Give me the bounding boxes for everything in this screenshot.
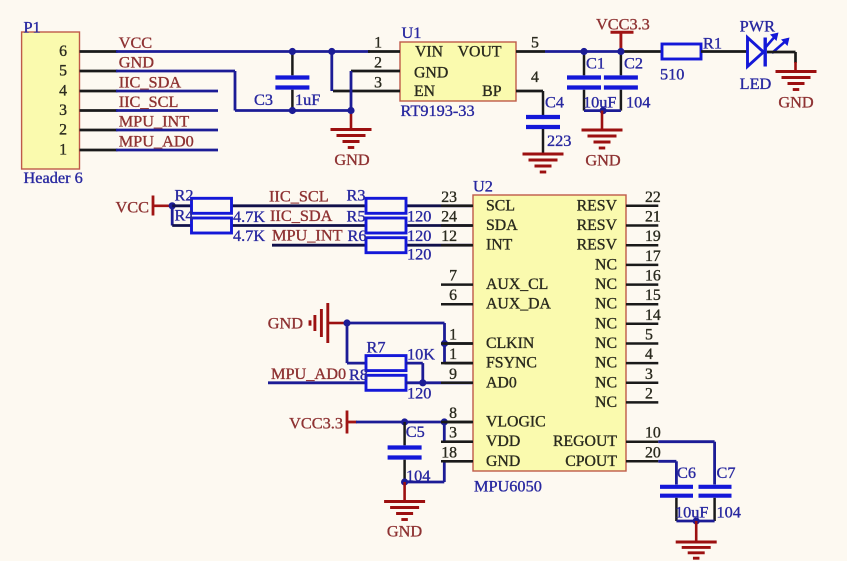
- svg-text:CLKIN: CLKIN: [486, 335, 535, 352]
- svg-text:1: 1: [449, 327, 457, 344]
- svg-text:PWR: PWR: [740, 17, 775, 36]
- svg-text:R1: R1: [703, 34, 722, 53]
- svg-text:9: 9: [449, 366, 457, 383]
- svg-text:NC: NC: [595, 394, 617, 411]
- svg-text:R6: R6: [348, 226, 367, 245]
- svg-text:4: 4: [531, 69, 539, 86]
- svg-text:5: 5: [59, 63, 67, 80]
- svg-text:19: 19: [645, 228, 661, 245]
- svg-text:RT9193-33: RT9193-33: [401, 101, 475, 120]
- svg-text:12: 12: [441, 228, 457, 245]
- svg-text:23: 23: [441, 189, 457, 206]
- svg-text:C3: C3: [254, 90, 273, 109]
- svg-text:R5: R5: [347, 207, 366, 226]
- svg-text:VDD: VDD: [486, 433, 520, 450]
- svg-text:120: 120: [407, 207, 431, 226]
- svg-text:FSYNC: FSYNC: [486, 355, 537, 372]
- svg-text:15: 15: [645, 287, 661, 304]
- svg-text:5: 5: [531, 35, 539, 52]
- svg-text:C5: C5: [406, 422, 425, 441]
- svg-text:22: 22: [645, 189, 661, 206]
- svg-text:NC: NC: [595, 374, 617, 391]
- svg-text:NC: NC: [595, 335, 617, 352]
- svg-text:C1: C1: [586, 54, 605, 73]
- svg-text:NC: NC: [595, 315, 617, 332]
- svg-text:NC: NC: [595, 355, 617, 372]
- svg-text:18: 18: [441, 444, 457, 461]
- svg-text:1uF: 1uF: [295, 90, 320, 109]
- svg-text:C2: C2: [624, 54, 643, 73]
- svg-text:MPU_INT: MPU_INT: [119, 112, 190, 131]
- svg-text:MPU6050: MPU6050: [474, 477, 542, 496]
- svg-text:REGOUT: REGOUT: [553, 433, 617, 450]
- svg-text:VOUT: VOUT: [458, 44, 502, 61]
- svg-text:IIC_SCL: IIC_SCL: [269, 186, 329, 205]
- svg-text:GND: GND: [268, 314, 304, 333]
- svg-text:20: 20: [645, 444, 661, 461]
- svg-text:RESV: RESV: [577, 197, 618, 214]
- svg-text:510: 510: [660, 65, 684, 84]
- svg-text:4.7K: 4.7K: [233, 226, 265, 245]
- svg-text:GND: GND: [778, 93, 814, 112]
- svg-text:R7: R7: [367, 338, 386, 357]
- svg-text:U2: U2: [473, 177, 493, 196]
- svg-text:120: 120: [407, 384, 431, 403]
- svg-text:10: 10: [645, 425, 661, 442]
- svg-text:RESV: RESV: [577, 237, 618, 254]
- svg-text:R2: R2: [175, 186, 194, 205]
- svg-text:C4: C4: [545, 93, 564, 112]
- svg-text:2: 2: [59, 122, 67, 139]
- svg-text:GND: GND: [119, 53, 155, 72]
- svg-text:MPU_INT: MPU_INT: [272, 226, 343, 245]
- svg-text:10uF: 10uF: [583, 93, 616, 112]
- svg-text:6: 6: [449, 287, 457, 304]
- svg-text:NC: NC: [595, 276, 617, 293]
- svg-text:2: 2: [374, 55, 382, 72]
- svg-text:VCC: VCC: [119, 33, 152, 52]
- svg-text:IIC_SCL: IIC_SCL: [119, 92, 179, 111]
- svg-text:VLOGIC: VLOGIC: [486, 414, 546, 431]
- svg-text:5: 5: [645, 327, 653, 344]
- svg-text:VCC3.3: VCC3.3: [596, 15, 650, 34]
- svg-text:223: 223: [547, 131, 571, 150]
- svg-text:4: 4: [59, 83, 67, 100]
- svg-text:1: 1: [59, 142, 67, 159]
- svg-text:1: 1: [449, 346, 457, 363]
- svg-text:NC: NC: [595, 296, 617, 313]
- svg-text:2: 2: [645, 385, 653, 402]
- svg-text:1: 1: [374, 35, 382, 52]
- svg-text:4.7K: 4.7K: [233, 207, 265, 226]
- svg-text:LED: LED: [740, 74, 772, 93]
- svg-text:120: 120: [407, 245, 431, 264]
- svg-text:7: 7: [449, 268, 457, 285]
- svg-text:MPU_AD0: MPU_AD0: [271, 364, 346, 383]
- svg-text:C6: C6: [677, 463, 696, 482]
- svg-text:GND: GND: [585, 151, 621, 170]
- svg-text:3: 3: [59, 102, 67, 119]
- svg-text:AUX_DA: AUX_DA: [486, 296, 552, 313]
- svg-text:CPOUT: CPOUT: [565, 453, 617, 470]
- svg-text:C7: C7: [717, 463, 736, 482]
- svg-text:EN: EN: [414, 83, 436, 100]
- svg-text:BP: BP: [482, 83, 502, 100]
- svg-text:10K: 10K: [407, 345, 435, 364]
- svg-text:VIN: VIN: [415, 44, 444, 61]
- svg-text:120: 120: [407, 226, 431, 245]
- svg-text:104: 104: [717, 503, 741, 522]
- svg-text:VCC: VCC: [116, 197, 149, 216]
- svg-text:IIC_SDA: IIC_SDA: [270, 206, 333, 225]
- svg-text:16: 16: [645, 268, 661, 285]
- svg-text:24: 24: [441, 209, 457, 226]
- svg-text:GND: GND: [414, 65, 448, 82]
- svg-text:3: 3: [374, 75, 382, 92]
- svg-text:6: 6: [59, 43, 67, 60]
- svg-text:U1: U1: [402, 23, 422, 42]
- svg-text:P1: P1: [24, 18, 41, 37]
- svg-text:R8: R8: [349, 365, 368, 384]
- svg-text:RESV: RESV: [577, 217, 618, 234]
- svg-text:GND: GND: [486, 453, 520, 470]
- svg-text:SCL: SCL: [486, 197, 515, 214]
- svg-text:GND: GND: [334, 150, 370, 169]
- svg-text:17: 17: [645, 248, 661, 265]
- svg-text:21: 21: [645, 209, 661, 226]
- svg-text:R3: R3: [347, 186, 366, 205]
- svg-text:NC: NC: [595, 256, 617, 273]
- svg-text:MPU_AD0: MPU_AD0: [119, 132, 194, 151]
- svg-text:R4: R4: [175, 206, 194, 225]
- svg-text:3: 3: [449, 425, 457, 442]
- svg-text:SDA: SDA: [486, 217, 518, 234]
- svg-text:IIC_SDA: IIC_SDA: [119, 73, 182, 92]
- svg-text:14: 14: [645, 307, 661, 324]
- svg-text:104: 104: [626, 93, 650, 112]
- svg-text:4: 4: [645, 346, 653, 363]
- svg-text:8: 8: [449, 405, 457, 422]
- svg-text:GND: GND: [387, 522, 423, 541]
- svg-text:3: 3: [645, 366, 653, 383]
- svg-text:AD0: AD0: [486, 374, 517, 391]
- svg-text:INT: INT: [486, 237, 513, 254]
- svg-text:AUX_CL: AUX_CL: [486, 276, 548, 293]
- svg-text:10uF: 10uF: [675, 503, 708, 522]
- svg-text:VCC3.3: VCC3.3: [289, 414, 343, 433]
- svg-text:Header 6: Header 6: [24, 168, 83, 187]
